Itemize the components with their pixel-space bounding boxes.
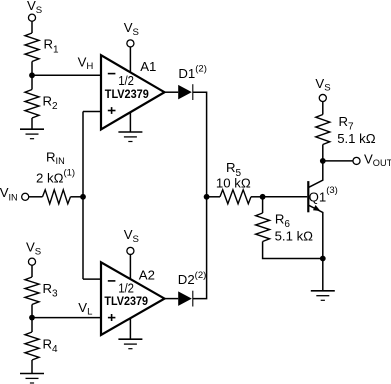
label D1 (2) [178, 64, 206, 81]
power VS (top-left) terminal circle [28, 14, 35, 21]
resistor R6 [256, 213, 270, 242]
label A2 1/2 [118, 280, 134, 295]
ground (below A1) [118, 132, 142, 142]
label D2 (2) [178, 270, 206, 287]
label VL [78, 300, 93, 318]
wire VH node to A1 inverting input [32, 74, 101, 76]
op-amp A2 minus input symbol [108, 280, 116, 282]
svg-text:TLV2379: TLV2379 [104, 294, 148, 308]
svg-text:TLV2379: TLV2379 [105, 87, 149, 101]
label R2 [43, 93, 59, 112]
wire junction to R5 [207, 196, 220, 198]
label R6 value 5.1 kohm [275, 229, 314, 244]
wire node to R4 [31, 318, 33, 332]
label VOUT [364, 152, 391, 168]
diode D1 [178, 84, 193, 100]
wire VS to R3 [31, 265, 33, 277]
op-amp A2 triangle [101, 262, 165, 335]
label A2 TLV2379 [104, 294, 148, 308]
ground (below R4) [20, 374, 44, 384]
wire D2 to junction rail [193, 197, 207, 299]
transistor Q1 emitter with arrow [308, 205, 323, 259]
svg-text:10 kΩ: 10 kΩ [216, 176, 251, 191]
terminal VOUT circle [353, 157, 360, 164]
wire to A1 noninverting input [83, 111, 101, 113]
label RIN [46, 150, 65, 167]
wire node to Q1 base [263, 196, 308, 198]
wire A1 VS supply [129, 47, 131, 73]
wire A2 ground pin [129, 317, 131, 339]
label A1 1/2 [118, 73, 134, 88]
ground (below A2) [118, 339, 142, 349]
power VS (right) terminal circle [319, 94, 326, 101]
node VH junction dot [29, 72, 35, 78]
node VIN junction dot [80, 194, 86, 200]
label R5 [226, 160, 242, 179]
label R5 value 10 kohm [216, 176, 251, 191]
wire A1 output to D1 [165, 91, 179, 93]
wire R2 to ground [31, 118, 33, 129]
wire VIN to RIN [29, 196, 43, 198]
wire A2 VS supply [129, 255, 131, 281]
op-amp A1 plus input symbol [108, 107, 116, 114]
ground (below R2) [20, 129, 44, 139]
resistor R7 [316, 115, 330, 145]
op-amp A1 triangle [101, 55, 165, 129]
svg-text:A2: A2 [139, 268, 155, 283]
resistor R1 [25, 33, 39, 62]
label Q1 (3) [309, 185, 338, 205]
wire node to R6 [262, 197, 264, 213]
node VL junction dot [29, 315, 35, 321]
wire VOUT node to terminal [323, 160, 353, 162]
wire A2 output to D2 [165, 298, 179, 300]
wire to A2 inverting input [83, 278, 101, 280]
op-amp A1 minus input symbol [108, 73, 116, 75]
label R3 [43, 281, 59, 300]
node VOUT junction dot [320, 158, 326, 164]
op-amp A1 VS terminal circle [127, 40, 134, 47]
wire R3 to node VL [31, 305, 33, 318]
wire A1 ground pin [129, 111, 131, 132]
wire R1 to node VH [31, 62, 33, 76]
wire emitter node to ground [322, 259, 324, 291]
resistor R2 [25, 90, 39, 119]
wire R7 to VOUT node [322, 145, 324, 161]
wire VL node to A2 noninverting input [32, 317, 101, 319]
power VS (bottom-left) terminal circle [28, 258, 35, 265]
op-amp A1 VS label [124, 20, 139, 38]
label R4 [43, 336, 59, 355]
resistor R4 [25, 332, 39, 360]
power VS (right) label [315, 76, 330, 93]
power VS (bottom-left) label [26, 240, 41, 258]
node emitter junction dot [320, 256, 326, 262]
node diode junction dot [204, 194, 210, 200]
transistor Q1 base bar [307, 181, 309, 212]
resistor R5 [220, 190, 251, 204]
label VH [78, 54, 94, 72]
label R6 [275, 212, 291, 231]
label A1 [140, 59, 156, 74]
resistor RIN [43, 190, 71, 204]
svg-text:1/2: 1/2 [118, 280, 134, 295]
diode D2 [178, 291, 193, 307]
label A1 TLV2379 [105, 87, 149, 101]
power VS (top-left) label [27, 0, 42, 16]
wire R6 to emitter node [263, 242, 323, 259]
wire node to R2 [31, 75, 33, 89]
wire RIN to VIN node [71, 196, 84, 198]
terminal VIN circle [22, 193, 29, 200]
label RIN value 2 kohm (1) [36, 168, 75, 186]
label A2 [139, 268, 155, 283]
resistor R3 [25, 277, 39, 305]
svg-text:5.1 kΩ: 5.1 kΩ [337, 131, 376, 146]
wire VS to R1 [31, 21, 33, 33]
node R5/R6/base junction dot [260, 194, 266, 200]
wire R5 to base node [251, 196, 263, 198]
wire VS to R7 [322, 102, 324, 115]
svg-text:A1: A1 [140, 59, 156, 74]
op-amp A2 VS label [124, 227, 139, 245]
transistor Q1 collector [308, 161, 323, 188]
label VIN [0, 185, 18, 203]
op-amp A2 plus input symbol [108, 314, 116, 321]
op-amp A2 VS terminal circle [127, 247, 134, 254]
wire D1 to junction rail [193, 92, 207, 197]
svg-text:5.1 kΩ: 5.1 kΩ [275, 229, 314, 244]
label R7 [339, 114, 355, 133]
label R1 [44, 37, 60, 56]
label R7 value 5.1 kohm [337, 131, 376, 146]
wire R4 to ground [31, 360, 33, 374]
wire mid rail VIN node to A1 + and A2 - [82, 112, 84, 280]
ground (below Q1) [311, 291, 335, 301]
